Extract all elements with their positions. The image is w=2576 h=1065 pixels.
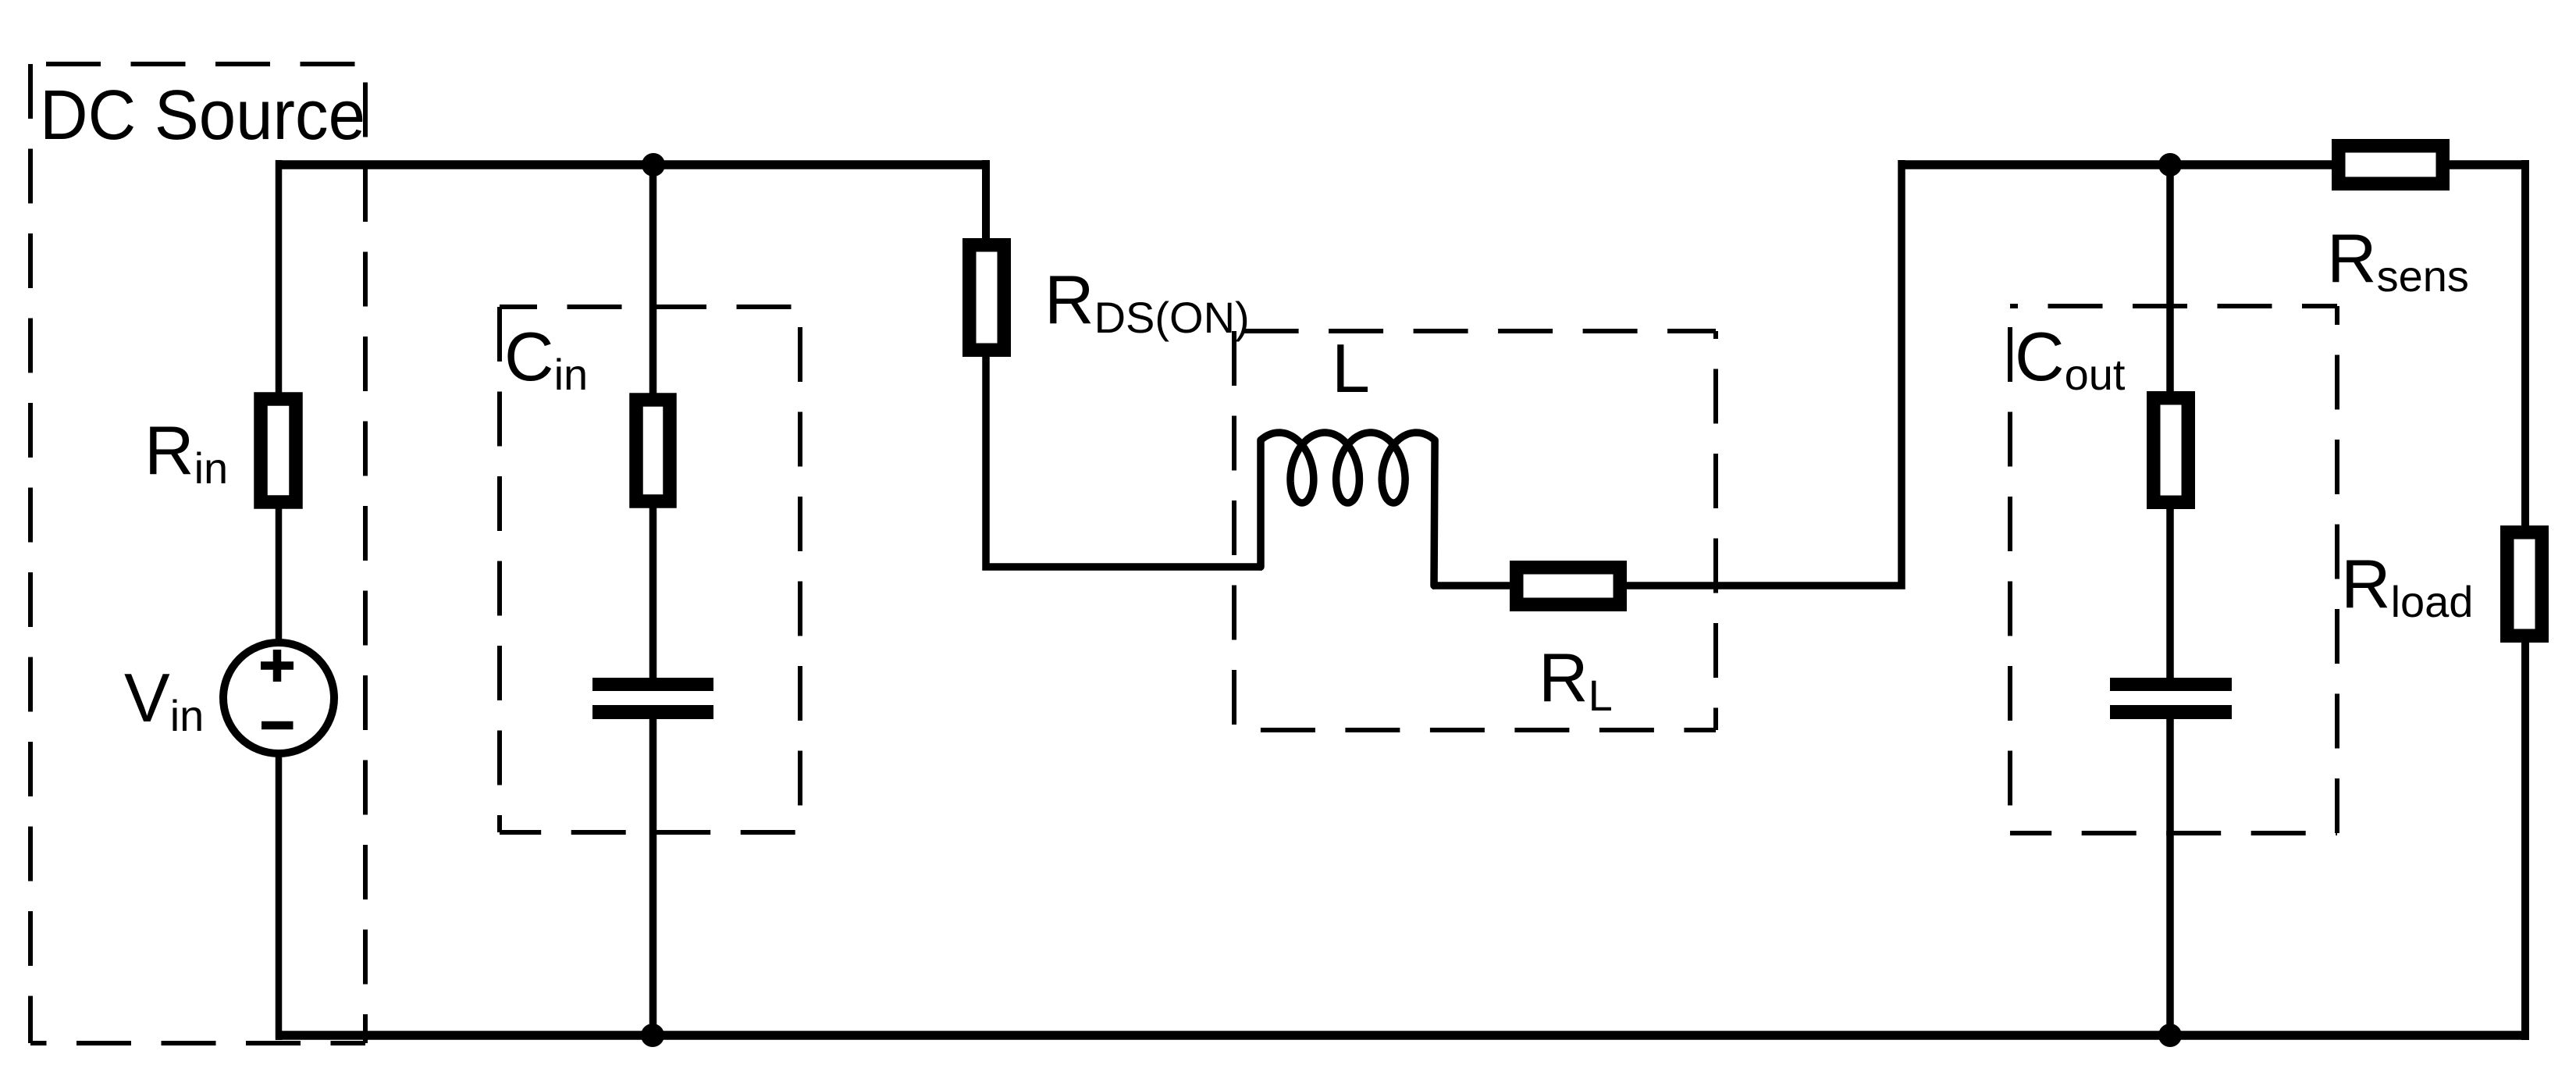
- resistor Rsens: [2339, 146, 2443, 184]
- voltage source Vin circle: [223, 643, 334, 753]
- capacitor Cin top plate: [592, 678, 713, 691]
- capacitor Cin bottom plate: [592, 705, 713, 719]
- junction node dot bottom of Cin branch: [641, 1024, 664, 1047]
- L / RL dashed enclosure box: [1234, 331, 1716, 730]
- capacitor Cout bottom plate: [2110, 705, 2232, 719]
- wire: top rail from Vin branch to RDS(ON) corner: [279, 160, 986, 169]
- wire: Vin to bottom rail: [276, 752, 283, 1040]
- wire: Cout branch upper: [2166, 160, 2174, 396]
- wire: Cin ESR to plates: [649, 506, 657, 681]
- Cin dashed enclosure box: [500, 307, 800, 832]
- svg-text:DC Source: DC Source: [40, 77, 365, 155]
- wire: Cout plates to bottom rail: [2166, 716, 2174, 1040]
- resistor RL: [1517, 568, 1621, 605]
- svg-text:L: L: [1332, 329, 1370, 407]
- wire: Rload to bottom rail: [2521, 639, 2529, 1040]
- wire: corner down from top rail to RDS(ON): [982, 160, 990, 242]
- wire: left branch top (Vin/Rin): [276, 160, 283, 396]
- Cout dashed enclosure box: [2010, 306, 2337, 833]
- wire: Rin to Vin: [276, 506, 283, 644]
- capacitor Cout top plate: [2110, 678, 2232, 691]
- inductor L coil: [1261, 433, 1435, 586]
- wire: Cin branch upper: [649, 160, 657, 396]
- wire: coil to RL: [1432, 582, 1513, 589]
- resistor Cin ESR box: [636, 400, 670, 501]
- wire: Rsens to right corner: [2450, 160, 2525, 169]
- wire: right side down to Rload: [2521, 160, 2529, 529]
- wire: Cin plates to bottom rail: [649, 716, 657, 1040]
- wire: RDS(ON) down and right to inductor: [986, 354, 1262, 567]
- resistor RDS(ON): [970, 245, 1005, 351]
- junction node dot top of Cout branch: [2158, 153, 2182, 176]
- Vin plus sign: [261, 650, 294, 682]
- wire: RL right, up, to top rail: [1624, 160, 1902, 586]
- DC Source dashed enclosure box: [30, 64, 365, 1043]
- Vin minus sign: [262, 721, 294, 730]
- resistor Rload: [2507, 532, 2542, 636]
- wire: top-right rail from riser corner to Rsens: [1902, 160, 2332, 169]
- resistor Rin: [261, 399, 296, 502]
- resistor Cout ESR box: [2154, 398, 2189, 503]
- wire: Cout ESR to plates: [2166, 506, 2174, 681]
- junction node dot top of Cin branch: [642, 153, 665, 176]
- wire: bottom rail: [276, 1031, 2529, 1040]
- junction node dot bottom of Cout branch: [2158, 1024, 2182, 1047]
